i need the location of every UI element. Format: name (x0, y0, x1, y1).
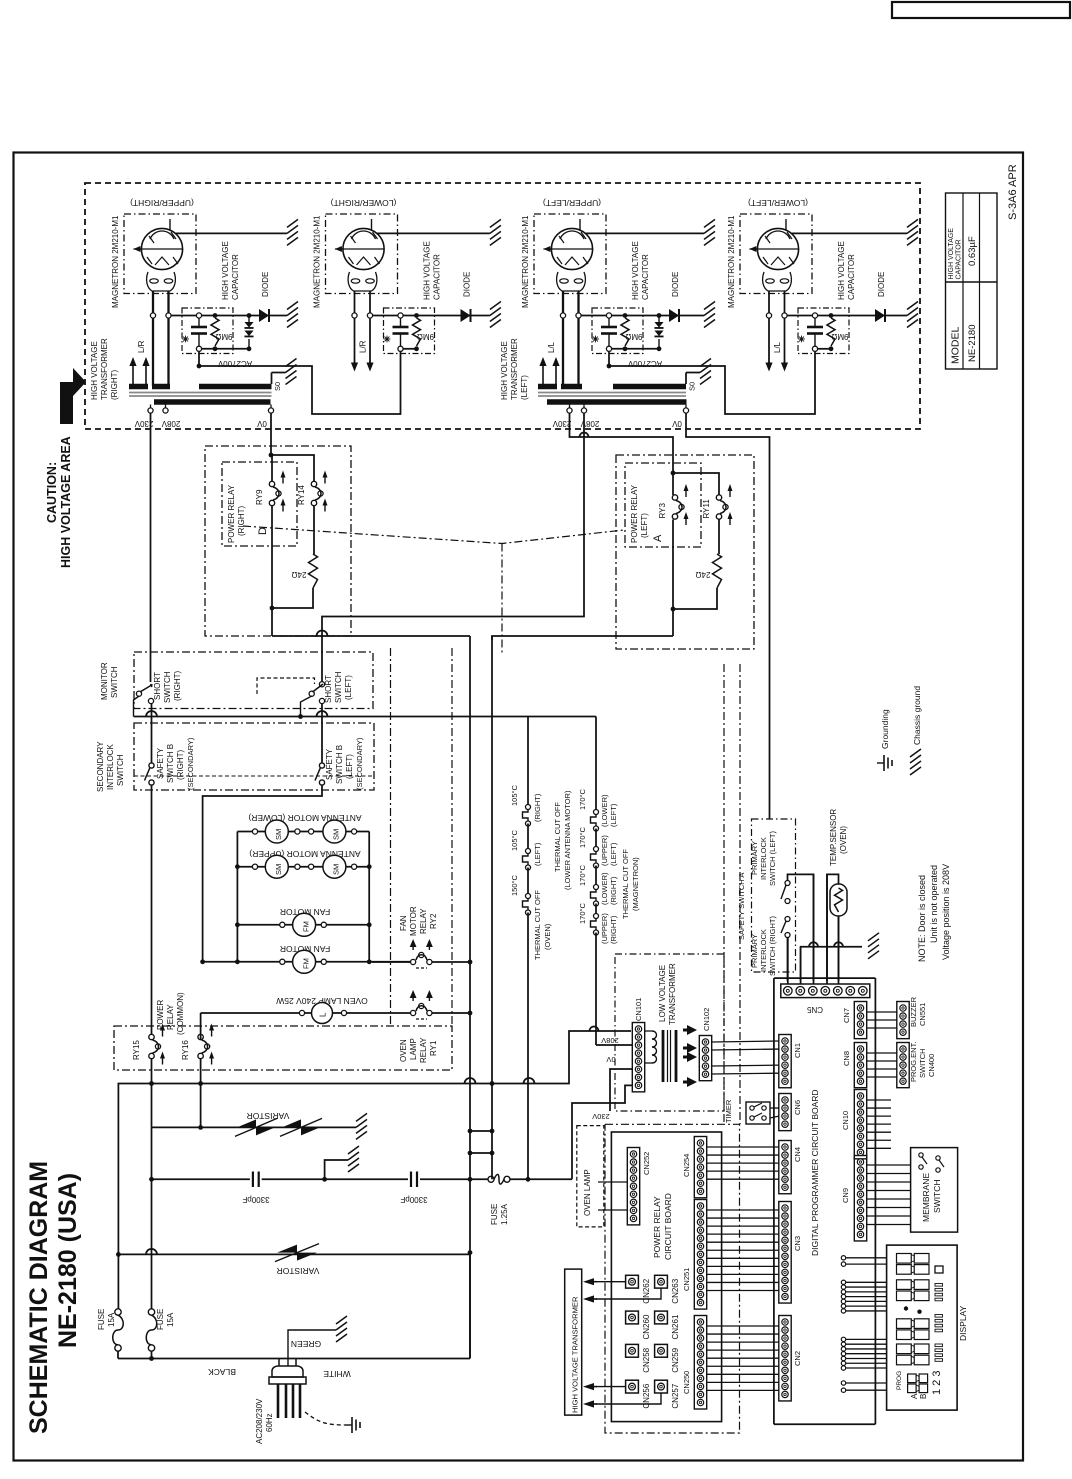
oven lamp relay RY1 (411, 1010, 416, 1015)
svg-text:(UPPER/RIGHT): (UPPER/RIGHT) (130, 198, 194, 208)
svg-text:INTERLOCK: INTERLOCK (759, 837, 768, 880)
svg-text:(UPPER/LEFT): (UPPER/LEFT) (543, 198, 601, 208)
switch A wiring (788, 874, 814, 981)
svg-text:BLACK: BLACK (208, 1367, 236, 1377)
dash-dot box RY15/16 (114, 1026, 452, 1070)
relay RY15 (149, 1034, 154, 1039)
big dash-dot box power relay board area (605, 1124, 740, 1433)
svg-text:L/R: L/R (359, 340, 368, 353)
svg-text:170°C: 170°C (578, 788, 587, 810)
top right header box (892, 2, 1070, 18)
svg-text:(LOWER/RIGHT): (LOWER/RIGHT) (331, 198, 397, 208)
3300pF rail (152, 1178, 250, 1180)
secondary interlock dash-dot box (134, 723, 374, 790)
buzzer CN551 (897, 1002, 909, 1039)
svg-text:FM: FM (301, 958, 310, 969)
resistor 24ohm right relay (309, 554, 318, 588)
svg-text:CAPACITOR: CAPACITOR (956, 239, 963, 279)
svg-text:SAFETY SWITCH A: SAFETY SWITCH A (737, 873, 746, 940)
primary interlock switch right (785, 917, 790, 922)
svg-text:PROG.ENT.: PROG.ENT. (909, 1042, 918, 1082)
CN5 (781, 984, 870, 998)
oven lamp wires to CN252 (598, 1181, 627, 1183)
svg-text:MAGNETRON 2M210-M1: MAGNETRON 2M210-M1 (521, 215, 530, 308)
relay RY14 (311, 481, 316, 486)
svg-text:FUSE: FUSE (156, 1309, 165, 1330)
svg-text:1 2 3: 1 2 3 (931, 1371, 943, 1395)
svg-text:Voltage position is 208V: Voltage position is 208V (941, 864, 951, 960)
motor bus right (368, 832, 370, 962)
svg-text:(UPPER): (UPPER) (600, 913, 609, 944)
power relay circuit board outline (611, 1132, 721, 1422)
svg-text:SCHEMATIC DIAGRAM: SCHEMATIC DIAGRAM (25, 1161, 53, 1434)
svg-text:230V: 230V (592, 1112, 610, 1121)
svg-text:BUZZER: BUZZER (909, 996, 918, 1027)
svg-text:Chassis ground: Chassis ground (912, 686, 922, 745)
svg-text:TRANSFORMER: TRANSFORMER (668, 963, 677, 1025)
svg-text:CN7: CN7 (842, 1008, 851, 1023)
magnetron LOWER/LEFT (740, 214, 812, 294)
svg-text:B: B (919, 1394, 928, 1399)
svg-text:MAGNETRON 2M210-M1: MAGNETRON 2M210-M1 (313, 215, 322, 308)
svg-text:INTERLOCK: INTERLOCK (759, 929, 768, 972)
svg-text:HIGH VOLTAGE AREA: HIGH VOLTAGE AREA (59, 436, 73, 568)
svg-text:L: L (319, 1012, 328, 1017)
svg-text:HIGH VOLTAGE TRANSFORMER: HIGH VOLTAGE TRANSFORMER (571, 1296, 580, 1413)
svg-text:MAGNETRON 2M210-M1: MAGNETRON 2M210-M1 (111, 215, 120, 308)
svg-text:(LEFT): (LEFT) (609, 803, 618, 827)
svg-text:(LOWER): (LOWER) (600, 794, 609, 827)
svg-text:CN250: CN250 (682, 1371, 691, 1394)
magnetron UPPER/RIGHT (124, 214, 196, 294)
svg-text:SWITCH: SWITCH (918, 1048, 927, 1078)
svg-text:(SECONDARY): (SECONDARY) (355, 737, 364, 790)
3300pF cap 1 (252, 1172, 254, 1188)
main bus 1083.5 (118, 1031, 631, 1254)
svg-text:SAFETY: SAFETY (156, 747, 165, 779)
svg-text:LAMP: LAMP (409, 1038, 418, 1060)
caution arrow (60, 382, 73, 424)
svg-text:15A: 15A (166, 1312, 175, 1327)
grounding legend (877, 762, 884, 764)
RY16 top wire to oven lamp line (200, 1013, 202, 1034)
svg-text:CN4: CN4 (793, 1147, 802, 1162)
AC plug (278, 1359, 280, 1369)
svg-text:170°C: 170°C (578, 864, 587, 886)
fuse 15A no2 (151, 1179, 153, 1309)
power relay (LEFT) inner box (625, 463, 701, 547)
RY9/RY14 bottoms (271, 506, 273, 637)
svg-text:HIGH VOLTAGE: HIGH VOLTAGE (837, 241, 846, 300)
svg-text:SM: SM (274, 829, 283, 840)
svg-text:NE-2180 (USA): NE-2180 (USA) (54, 1173, 82, 1348)
svg-text:THERMAL CUT OFF: THERMAL CUT OFF (621, 849, 630, 919)
svg-text:3300pF: 3300pF (400, 1195, 427, 1204)
svg-text:GREEN: GREEN (291, 1339, 321, 1349)
svg-text:L/L: L/L (773, 341, 782, 353)
magnetron LOWER/RIGHT (326, 214, 398, 294)
svg-text:NOTE: Door is closed: NOTE: Door is closed (917, 875, 927, 962)
svg-text:SECONDARY: SECONDARY (96, 741, 105, 792)
primary interlock switch left (785, 881, 790, 886)
svg-text:HIGH VOLTAGE: HIGH VOLTAGE (500, 341, 509, 400)
svg-text:(LOWER/LEFT): (LOWER/LEFT) (748, 198, 808, 208)
long vertical 492 (491, 636, 493, 1179)
svg-text:CAPACITOR: CAPACITOR (847, 254, 856, 300)
svg-text:THERMAL CUT OFF: THERMAL CUT OFF (553, 802, 562, 872)
safety B left drop (203, 785, 322, 962)
svg-text:CN263: CN263 (671, 1278, 680, 1303)
svg-text:170°C: 170°C (578, 826, 587, 848)
power relay (RIGHT) outer dash-dot box (205, 446, 351, 636)
230V right feed down to monitor switch (150, 413, 152, 682)
svg-text:SWITCH: SWITCH (110, 666, 119, 698)
svg-text:60Hz: 60Hz (265, 1413, 274, 1432)
svg-text:HIGH VOLTAGE: HIGH VOLTAGE (221, 241, 230, 300)
svg-text:SWITCH B: SWITCH B (335, 745, 344, 784)
svg-text:ANTENNA MOTOR (UPPER): ANTENNA MOTOR (UPPER) (249, 849, 360, 859)
svg-text:208V: 208V (161, 419, 180, 428)
208V left feed down to short switch (322, 413, 584, 687)
dashed plug ground (305, 1412, 345, 1425)
svg-text:SWITCH B: SWITCH B (166, 744, 175, 783)
bottom AC line (118, 1358, 470, 1360)
svg-text:CN9: CN9 (841, 1188, 850, 1203)
svg-text:DIGITAL PROGRAMMER CIRCUIT BOA: DIGITAL PROGRAMMER CIRCUIT BOARD (810, 1089, 820, 1256)
CN252 (627, 1148, 639, 1225)
svg-text:0V: 0V (256, 419, 266, 428)
svg-text:HIGH VOLTAGE: HIGH VOLTAGE (90, 341, 99, 400)
svg-text:RY2: RY2 (429, 913, 438, 929)
svg-text:0V: 0V (671, 419, 681, 428)
svg-text:SWITCH (RIGHT): SWITCH (RIGHT) (768, 916, 777, 976)
svg-text:CN251: CN251 (682, 1268, 691, 1291)
wire relay A bottom going left (492, 636, 673, 640)
svg-text:ANTENNA MOTOR (LOWER): ANTENNA MOTOR (LOWER) (248, 813, 361, 823)
svg-text:CAUTION:: CAUTION: (45, 462, 59, 523)
svg-text:CN260: CN260 (642, 1314, 651, 1339)
svg-text:CN262: CN262 (642, 1278, 651, 1303)
wire left xfmr cap return (609, 351, 815, 414)
short switch left (309, 691, 314, 696)
svg-text:D: D (257, 527, 269, 535)
CN5 riser wires (787, 938, 789, 985)
0V feed to relay D (270, 413, 272, 455)
svg-text:CN257: CN257 (671, 1383, 680, 1408)
arrows into HVT box (596, 1281, 626, 1283)
relay RY3 (672, 495, 677, 500)
svg-text:RY3: RY3 (658, 503, 667, 519)
svg-text:Unit is not operated: Unit is not operated (929, 865, 939, 943)
oven lamp dashed box (577, 1126, 604, 1227)
RY15 drop to 3300pF rail (151, 1127, 153, 1179)
svg-text:DIODE: DIODE (463, 272, 472, 297)
prog ent switch CN400 (897, 1043, 909, 1088)
0V left feed to interlocks (686, 413, 770, 819)
RY3/RY11 bottoms (672, 520, 674, 637)
svg-text:VARISTOR: VARISTOR (277, 1266, 320, 1276)
svg-text:DIODE: DIODE (671, 272, 680, 297)
svg-text:TRANSFORMER: TRANSFORMER (100, 338, 109, 400)
safety switch A dash-dot box (752, 819, 796, 972)
membrane switch (911, 1148, 958, 1233)
svg-text:CAPACITOR: CAPACITOR (231, 254, 240, 300)
svg-text:230V: 230V (552, 419, 571, 428)
safety switch B (LEFT) (319, 763, 324, 768)
svg-text:TIMER: TIMER (724, 1099, 733, 1123)
svg-text:POWER RELAY: POWER RELAY (630, 484, 639, 543)
svg-text:MAGNETRON 2M210-M1: MAGNETRON 2M210-M1 (727, 215, 736, 308)
svg-text:OVEN LAMP: OVEN LAMP (583, 1169, 592, 1216)
resistor 24ohm left relay (713, 554, 722, 588)
svg-text:CN3: CN3 (793, 1236, 802, 1251)
high voltage area dashed box (85, 183, 920, 429)
svg-text:3300pF: 3300pF (242, 1195, 269, 1204)
svg-text:MODEL: MODEL (950, 327, 962, 365)
svg-text:CN256: CN256 (642, 1383, 651, 1408)
svg-text:15A: 15A (107, 1312, 116, 1327)
svg-text:SHORT: SHORT (324, 675, 333, 703)
svg-text:24Ω: 24Ω (292, 570, 307, 579)
svg-text:9MΩ: 9MΩ (417, 332, 434, 341)
LVT dash-dot box (615, 954, 724, 1111)
svg-text:0.63µF: 0.63µF (967, 236, 978, 266)
power relay (LEFT) outer dash-dot box (616, 455, 754, 649)
wire right xfmr cap return (199, 351, 401, 414)
svg-text:FAN: FAN (399, 915, 408, 931)
svg-text:CN101: CN101 (634, 998, 643, 1021)
svg-text:POWER RELAY: POWER RELAY (227, 484, 236, 543)
svg-text:CN252: CN252 (642, 1152, 651, 1175)
svg-text:CN254: CN254 (682, 1154, 691, 1177)
svg-text:RY14: RY14 (297, 485, 306, 505)
svg-text:(SECONDARY): (SECONDARY) (186, 737, 195, 790)
high voltage transformer (RIGHT) (129, 384, 148, 390)
svg-text:HIGH VOLTAGE: HIGH VOLTAGE (423, 241, 432, 300)
svg-text:9MΩ: 9MΩ (831, 332, 848, 341)
short sw right drop (151, 704, 153, 764)
svg-text:PRIMARY: PRIMARY (750, 934, 759, 968)
svg-text:CN261: CN261 (671, 1314, 680, 1339)
svg-text:A: A (910, 1393, 919, 1399)
svg-text:CAPACITOR: CAPACITOR (641, 254, 650, 300)
svg-text:RY11: RY11 (702, 499, 711, 519)
DPCB outline (774, 977, 876, 979)
svg-text:SAFETY: SAFETY (325, 748, 334, 780)
LVT arrows (683, 1029, 693, 1032)
svg-text:OVEN: OVEN (399, 1039, 408, 1062)
svg-text:CN102: CN102 (702, 1008, 711, 1031)
svg-text:A: A (652, 534, 664, 542)
CN251 (694, 1200, 706, 1310)
svg-text:SM: SM (274, 864, 283, 875)
rail up to CN101 230V (572, 1085, 632, 1179)
cross links 470-492 (470, 1130, 492, 1132)
230V feed to relay A (570, 413, 674, 495)
svg-text:1.25A: 1.25A (500, 1203, 509, 1225)
svg-text:VARISTOR: VARISTOR (247, 1111, 290, 1121)
svg-text:SM: SM (332, 864, 341, 875)
display wires (841, 1256, 845, 1260)
svg-text:INTERLOCK: INTERLOCK (106, 744, 115, 790)
monitor bus wire (134, 696, 140, 717)
7-segment digits (897, 1254, 912, 1264)
varistor 3 wire (118, 1253, 470, 1255)
thermal cutoff chain (oven/lower antenna) (527, 717, 529, 808)
svg-text:L/L: L/L (547, 341, 556, 353)
svg-text:NE-2180: NE-2180 (967, 325, 978, 363)
safety B right drop to RY15 (151, 785, 153, 1034)
wire relay D bottom going right (272, 635, 470, 637)
CN101 wires (596, 1044, 632, 1046)
svg-text:(LEFT): (LEFT) (609, 842, 618, 866)
svg-text:105°C: 105°C (510, 829, 519, 851)
svg-text:WHITE: WHITE (323, 1369, 351, 1379)
svg-text:(COMMON): (COMMON) (176, 992, 185, 1035)
thermal cutoff chain (magnetron) (595, 717, 597, 813)
svg-text:(RIGHT): (RIGHT) (237, 505, 246, 536)
fuse 15A no1 (117, 1254, 119, 1309)
svg-text:Grounding: Grounding (880, 709, 890, 749)
mechanical link dash-dot between relays (243, 526, 624, 544)
svg-text:SWITCH (LEFT): SWITCH (LEFT) (768, 831, 777, 886)
svg-text:HIGH VOLTAGE: HIGH VOLTAGE (948, 228, 955, 280)
svg-text:CN5: CN5 (806, 1005, 823, 1014)
svg-text:CN10: CN10 (841, 1111, 850, 1130)
svg-text:RY9: RY9 (255, 489, 264, 505)
relay RY16 (198, 1034, 203, 1039)
dash-dot verticals mid page (723, 954, 725, 1124)
indicator bars (935, 1266, 943, 1273)
svg-text:S-3A6 APR: S-3A6 APR (1007, 164, 1019, 220)
svg-text:HIGH VOLTAGE: HIGH VOLTAGE (631, 241, 640, 300)
svg-text:TEMP.SENSOR: TEMP.SENSOR (829, 809, 838, 866)
svg-text:CN258: CN258 (642, 1347, 651, 1372)
chassis ground legend (910, 749, 921, 757)
svg-text:(LEFT): (LEFT) (344, 675, 353, 700)
svg-text:MONITOR: MONITOR (100, 662, 109, 700)
svg-text:150°C: 150°C (510, 874, 519, 896)
svg-text:PROG: PROG (896, 1371, 903, 1390)
svg-text:(LOWER ANTENNA MOTOR): (LOWER ANTENNA MOTOR) (563, 790, 572, 890)
svg-text:0V: 0V (606, 1055, 615, 1064)
svg-text:9MΩ: 9MΩ (215, 332, 232, 341)
CN102-CN1 wires (712, 1041, 779, 1042)
CN250 (694, 1316, 706, 1410)
RY16 bottom drop (200, 1059, 202, 1128)
CN5 riser wires (787, 938, 789, 985)
svg-text:170°C: 170°C (578, 902, 587, 924)
svg-text:(RIGHT): (RIGHT) (609, 876, 618, 905)
varistor wire 1127 (152, 1126, 357, 1128)
dash-dot verticals left area (390, 648, 392, 1026)
svg-text:DIODE: DIODE (877, 272, 886, 297)
svg-text:RY16: RY16 (181, 1040, 190, 1060)
long vertical 470 (469, 636, 471, 1358)
svg-text:CN259: CN259 (671, 1347, 680, 1372)
svg-text:THERMAL CUT OFF: THERMAL CUT OFF (533, 890, 542, 960)
svg-text:SWITCH: SWITCH (116, 754, 125, 786)
relay RY11 (716, 495, 721, 500)
svg-text:FUSE: FUSE (490, 1204, 499, 1225)
svg-text:RELAY: RELAY (419, 1037, 428, 1063)
svg-text:MOTOR: MOTOR (409, 906, 418, 936)
svg-text:POWER RELAY: POWER RELAY (652, 1196, 662, 1258)
svg-text:L/R: L/R (137, 340, 146, 353)
svg-text:TRANSFORMER: TRANSFORMER (510, 338, 519, 400)
svg-text:(LEFT): (LEFT) (345, 754, 354, 779)
svg-text:PRIMARY: PRIMARY (750, 841, 759, 875)
svg-text:9MΩ: 9MΩ (625, 332, 642, 341)
ground wire to CN5 pin2 (801, 947, 862, 981)
svg-text:SWITCH: SWITCH (163, 671, 172, 703)
high voltage transformer label box (565, 1269, 582, 1415)
svg-text:(MAGNETRON): (MAGNETRON) (631, 857, 640, 911)
high voltage transformer (LEFT) (538, 384, 557, 390)
svg-text:(LEFT): (LEFT) (520, 375, 529, 400)
short sw left drop (321, 704, 323, 764)
CN254 (694, 1137, 706, 1198)
svg-text:RY15: RY15 (132, 1040, 141, 1060)
svg-text:DISPLAY: DISPLAY (958, 1305, 968, 1341)
svg-text:(LOWER): (LOWER) (600, 872, 609, 905)
svg-text:(RIGHT): (RIGHT) (173, 670, 182, 701)
svg-text:CN400: CN400 (927, 1054, 936, 1077)
svg-text:S0: S0 (273, 382, 282, 391)
svg-text:CN1: CN1 (793, 1043, 802, 1058)
monitor switch (136, 691, 141, 696)
svg-text:(LEFT): (LEFT) (640, 513, 649, 538)
svg-text:CIRCUIT BOARD: CIRCUIT BOARD (663, 1193, 673, 1260)
svg-text:SHORT: SHORT (153, 672, 162, 700)
svg-text:(RIGHT): (RIGHT) (533, 793, 542, 822)
svg-text:CAPACITOR: CAPACITOR (433, 254, 442, 300)
monitor/short switch dash-dot box (134, 652, 373, 709)
svg-text:(OVEN): (OVEN) (543, 923, 552, 950)
power relay (RIGHT) inner box (222, 462, 297, 546)
svg-text:SWITCH: SWITCH (932, 1179, 942, 1213)
svg-text:CN551: CN551 (918, 1003, 927, 1026)
svg-text:24Ω: 24Ω (696, 570, 711, 579)
svg-text:LOW VOLTAGE: LOW VOLTAGE (658, 965, 667, 1022)
safety switch B (RIGHT) (149, 763, 154, 768)
svg-text:SWITCH: SWITCH (334, 671, 343, 703)
svg-text:(OVEN): (OVEN) (839, 826, 848, 854)
svg-text:MEMBRANE: MEMBRANE (921, 1173, 931, 1222)
svg-text:(RIGHT): (RIGHT) (110, 369, 119, 400)
svg-text:CN2: CN2 (793, 1351, 802, 1366)
svg-text:105°C: 105°C (510, 784, 519, 806)
dashed mech link between short switches (257, 678, 315, 694)
svg-text:(RIGHT): (RIGHT) (609, 915, 618, 944)
relay RY9 (269, 481, 274, 486)
dashed line inside interlock box (134, 775, 374, 777)
display box (887, 1245, 958, 1410)
svg-text:CN6: CN6 (793, 1100, 802, 1115)
magnetron UPPER/LEFT (534, 214, 606, 294)
svg-text:AC208/230V: AC208/230V (255, 1398, 264, 1444)
svg-text:FUSE: FUSE (97, 1309, 106, 1330)
svg-text:FM: FM (301, 921, 310, 932)
svg-text:(RIGHT): (RIGHT) (176, 749, 185, 780)
svg-text:208V: 208V (580, 419, 599, 428)
green wire (287, 1352, 289, 1366)
svg-text:208V: 208V (601, 1036, 619, 1045)
ground above rail (325, 1160, 348, 1179)
svg-text:DIODE: DIODE (261, 272, 270, 297)
svg-text:SM: SM (332, 829, 341, 840)
svg-text:(UPPER): (UPPER) (600, 835, 609, 866)
